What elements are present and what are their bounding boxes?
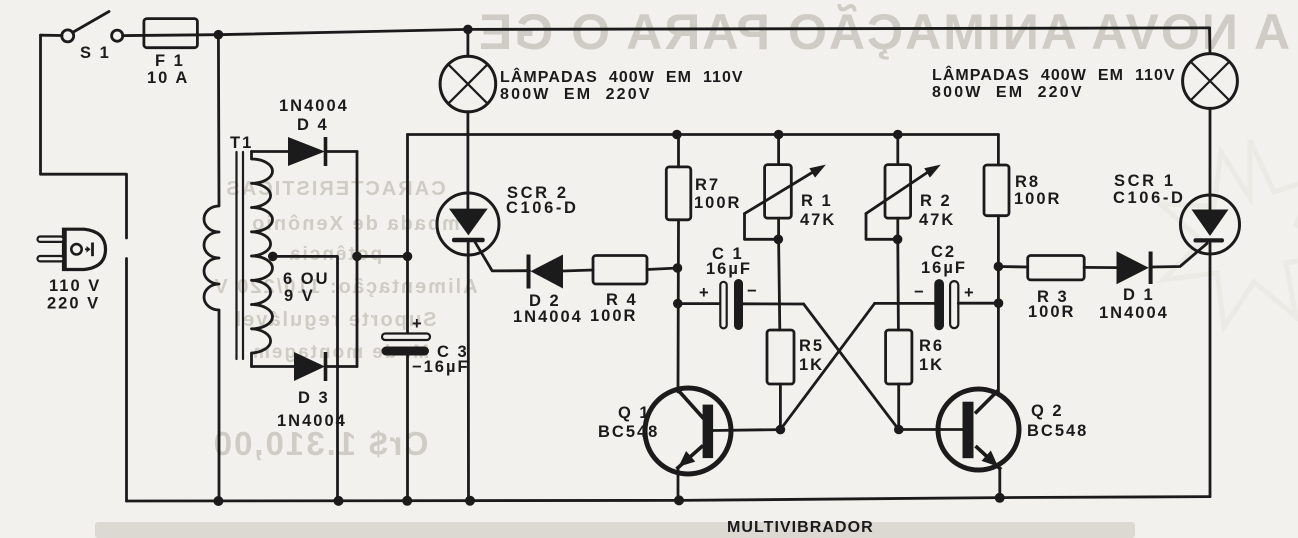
ghost bleed-through headline xyxy=(477,4,1290,60)
svg-text:R5: R5 xyxy=(799,337,824,355)
svg-text:100R: 100R xyxy=(1028,303,1075,321)
svg-text:+: + xyxy=(699,284,711,302)
capacitor C2 xyxy=(875,302,935,305)
svg-text:220 V: 220 V xyxy=(47,295,100,313)
svg-text:10 A: 10 A xyxy=(147,69,189,87)
switch S1 xyxy=(73,12,110,33)
resistor R3 xyxy=(998,265,1027,268)
svg-text:+: + xyxy=(412,315,424,333)
svg-text:1N4004: 1N4004 xyxy=(279,97,349,115)
ghost photo band bottom xyxy=(95,522,1135,538)
diode D4 xyxy=(252,150,289,153)
svg-text:potência: potência xyxy=(288,244,382,265)
svg-text:F 1: F 1 xyxy=(155,52,185,70)
lamp 1 xyxy=(466,29,469,56)
svg-text:−: − xyxy=(914,283,926,301)
diode D3 xyxy=(252,365,295,368)
fuse F1 xyxy=(144,19,198,48)
ghost starburst right xyxy=(1160,140,1298,327)
node C2 right xyxy=(994,298,1004,308)
node C3 bottom rail xyxy=(402,496,412,506)
svg-text:BC548: BC548 xyxy=(1027,422,1088,440)
svg-text:R8: R8 xyxy=(1015,173,1040,191)
svg-text:100R: 100R xyxy=(1014,190,1061,208)
diode D2 xyxy=(527,255,531,289)
svg-text:CARACTERISTICAS: CARACTERISTICAS xyxy=(224,178,445,200)
svg-text:BC548: BC548 xyxy=(598,423,659,441)
svg-text:D 3: D 3 xyxy=(298,389,330,407)
svg-text:47K: 47K xyxy=(919,211,955,229)
node SCR2 cathode rail xyxy=(465,496,475,506)
wire C3 branch vertical xyxy=(406,135,409,334)
svg-text:LÂMPADAS 400W EM 110V: LÂMPADAS 400W EM 110V xyxy=(500,67,744,86)
wire C2 to Q1 base diagonal xyxy=(780,303,874,429)
svg-text:R6: R6 xyxy=(919,337,944,355)
SCR 1 xyxy=(1181,195,1240,254)
svg-text:1K: 1K xyxy=(799,356,824,374)
svg-text:16µF: 16µF xyxy=(706,260,752,278)
node R1 bottom xyxy=(774,235,784,245)
svg-text:D 1: D 1 xyxy=(1123,286,1155,304)
node Q2 emitter rail xyxy=(995,493,1005,503)
node Q1 emitter rail xyxy=(674,495,684,505)
svg-text:1N4004: 1N4004 xyxy=(277,412,347,430)
svg-text:LÂMPADAS 400W EM 110V: LÂMPADAS 400W EM 110V xyxy=(932,65,1176,84)
svg-text:T1: T1 xyxy=(230,134,253,152)
svg-text:800W EM 220V: 800W EM 220V xyxy=(500,86,652,103)
svg-text:C106-D: C106-D xyxy=(1113,189,1185,207)
svg-text:16µF: 16µF xyxy=(921,259,967,277)
svg-text:Cr$ 1.310,00: Cr$ 1.310,00 xyxy=(212,425,429,462)
wire rectifier cathodes vertical xyxy=(356,152,359,367)
svg-text:S 1: S 1 xyxy=(80,44,111,62)
node ground tap xyxy=(334,496,344,506)
svg-text:−: − xyxy=(747,282,759,300)
lamp 2 xyxy=(1208,28,1211,54)
svg-text:9 V: 9 V xyxy=(284,287,315,305)
resistor R4 xyxy=(593,256,647,285)
svg-text:110 V: 110 V xyxy=(49,277,101,295)
svg-text:1N4004: 1N4004 xyxy=(513,308,583,326)
wire lamp2 to SCR1 xyxy=(1209,108,1212,209)
node C3 top xyxy=(403,252,413,262)
svg-text:−16µF: −16µF xyxy=(412,358,470,376)
transformer T1 core xyxy=(237,152,244,359)
transistor Q2 xyxy=(938,389,1019,470)
potentiometer R1 xyxy=(777,135,780,165)
svg-text:6 OU: 6 OU xyxy=(283,270,330,288)
wire center tap to ground xyxy=(273,256,338,501)
transformer T1 secondary xyxy=(252,152,273,367)
wire dc rail y134 xyxy=(408,133,999,136)
node C1 left xyxy=(673,299,683,309)
wire R1 to R5 xyxy=(779,239,780,330)
svg-text:100R: 100R xyxy=(590,307,637,325)
resistor R8 xyxy=(997,135,1000,166)
potentiometer R2 xyxy=(896,135,899,165)
svg-text:100R: 100R xyxy=(694,194,741,212)
svg-text:47K: 47K xyxy=(800,211,836,229)
capacitor C3 xyxy=(382,334,430,341)
transistor Q1 xyxy=(645,388,731,474)
svg-text:R7: R7 xyxy=(695,176,720,194)
svg-text:1K: 1K xyxy=(919,356,944,374)
node center tap xyxy=(268,252,278,262)
svg-text:Q 1: Q 1 xyxy=(618,404,651,422)
wire lamp1 to SCR2 xyxy=(466,112,469,209)
wire bottom rail xyxy=(127,497,1211,501)
plug 110V/220V xyxy=(38,229,106,269)
node R2 bottom xyxy=(893,235,903,245)
resistor R6 xyxy=(886,330,912,384)
ghost bleed-through paragraph xyxy=(212,178,478,462)
wire top rail xyxy=(41,34,63,37)
wire rectifier to C3 node xyxy=(357,255,408,258)
node top F1 xyxy=(214,30,224,40)
node Q1 base xyxy=(776,425,786,435)
svg-text:1N4004: 1N4004 xyxy=(1099,304,1169,322)
svg-text:R 2: R 2 xyxy=(920,192,952,210)
resistor R7 xyxy=(677,135,680,167)
svg-text:D 4: D 4 xyxy=(297,116,329,134)
svg-text:+: + xyxy=(964,284,976,302)
capacitor C1 xyxy=(678,302,721,305)
svg-text:C106-D: C106-D xyxy=(506,199,578,217)
node R7 bottom / R4 xyxy=(673,263,683,273)
resistor R5 xyxy=(767,330,794,384)
diode D1 xyxy=(1117,251,1149,284)
node rail R1 xyxy=(774,130,784,140)
node rail R2 xyxy=(893,130,903,140)
node rectifier out xyxy=(352,252,362,262)
svg-text:SCR 1: SCR 1 xyxy=(1114,172,1176,190)
wire C1 to Q2 base diagonal xyxy=(804,304,899,430)
svg-text:Q 2: Q 2 xyxy=(1031,402,1064,420)
wire R2 to R6 xyxy=(896,239,899,330)
svg-text:MULTIVIBRADOR: MULTIVIBRADOR xyxy=(727,519,874,536)
node Q2 base xyxy=(894,425,904,435)
wire left loop to plug xyxy=(41,35,127,238)
svg-text:800W EM 220V: 800W EM 220V xyxy=(932,84,1084,101)
svg-text:R 1: R 1 xyxy=(801,192,833,210)
wire plug to bottom rail xyxy=(125,259,128,502)
SCR 2 xyxy=(437,193,499,255)
node R8 bottom / R3 xyxy=(994,262,1004,272)
transformer T1 primary xyxy=(204,35,219,501)
node primary bottom rail xyxy=(213,496,223,506)
node rail R7 xyxy=(672,130,682,140)
node top lamp1 xyxy=(463,25,473,35)
svg-text:mpada de Xenônio: mpada de Xenônio xyxy=(250,213,460,235)
svg-text:A NOVA ANIMAÇÃO PARA O GE: A NOVA ANIMAÇÃO PARA O GE xyxy=(477,4,1290,60)
